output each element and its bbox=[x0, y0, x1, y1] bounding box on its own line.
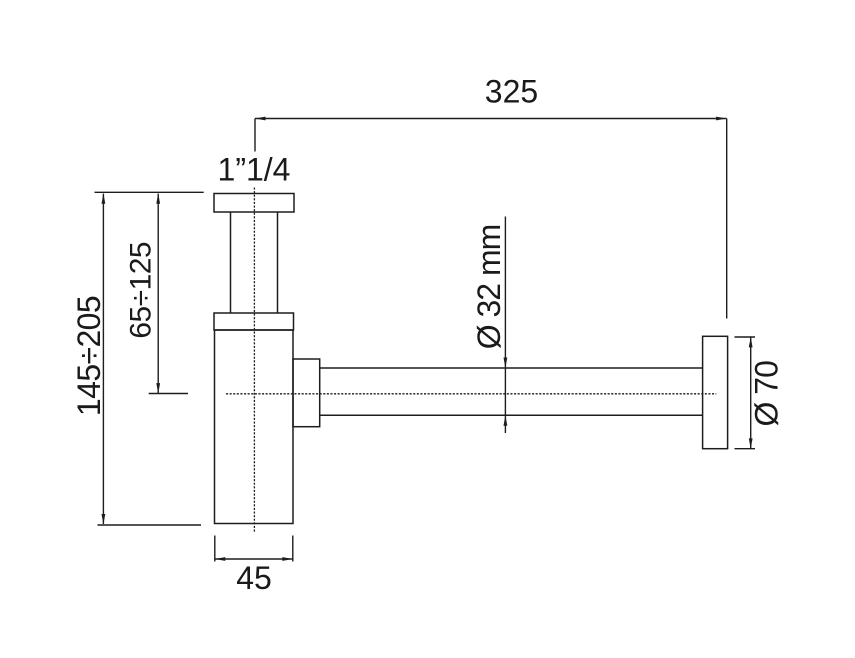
dim 325 line bbox=[255, 118, 727, 120]
dim 145-205 arrowhead bottom bbox=[102, 514, 106, 525]
dia32 arrowhead upper bbox=[504, 358, 508, 369]
dim 45 line bbox=[215, 558, 293, 560]
svg-text:325: 325 bbox=[485, 74, 538, 110]
dim 325 arrowhead left bbox=[255, 117, 266, 121]
svg-text:65÷125: 65÷125 bbox=[124, 242, 157, 339]
horizontal outlet pipe bottom edge bbox=[320, 414, 703, 416]
dia32 arrowhead lower bbox=[504, 415, 508, 426]
horizontal outlet pipe top edge bbox=[320, 367, 703, 369]
dim 325 ext right bbox=[726, 119, 728, 319]
dia70 ext top bbox=[735, 336, 756, 338]
top flange (tailpiece nut) bbox=[214, 194, 294, 213]
dim 45 arrowhead right bbox=[282, 557, 293, 561]
trap body bbox=[215, 330, 294, 524]
dim 65-125 line bbox=[157, 194, 159, 394]
dim 145-205 line bbox=[102, 194, 104, 524]
dim 325 arrowhead right bbox=[716, 117, 727, 121]
dim 65-125 arrowhead top bbox=[156, 193, 160, 204]
svg-text:Ø 70: Ø 70 bbox=[749, 361, 785, 427]
svg-text:1”1/4: 1”1/4 bbox=[218, 152, 291, 188]
svg-text:45: 45 bbox=[236, 560, 272, 596]
dim 45 ext right bbox=[292, 536, 294, 562]
dia70 dim line bbox=[750, 337, 752, 449]
tick 65-125 bottom bbox=[149, 393, 188, 395]
horizontal centerline bbox=[226, 393, 716, 395]
dia70 arrowhead bottom bbox=[749, 438, 753, 449]
dim 45 ext left bbox=[214, 536, 216, 562]
svg-text:Ø 32 mm: Ø 32 mm bbox=[471, 225, 507, 350]
vertical centerline bbox=[253, 188, 255, 534]
outlet connector nut bbox=[293, 359, 320, 427]
dia32 leader line bbox=[504, 217, 506, 434]
tailpiece pipe left edge bbox=[230, 212, 232, 313]
dia70 ext bottom bbox=[735, 448, 756, 450]
svg-text:145÷205: 145÷205 bbox=[71, 296, 107, 416]
wall flange bbox=[703, 336, 728, 448]
dim 65-125 arrowhead bottom bbox=[156, 383, 160, 394]
ext line flange top bbox=[95, 191, 204, 193]
dia70 arrowhead top bbox=[749, 337, 753, 348]
ext line body bottom bbox=[98, 524, 202, 526]
dim 325 ext left bbox=[254, 119, 256, 152]
tailpiece pipe right edge bbox=[277, 212, 279, 313]
body collar bbox=[214, 313, 294, 330]
dim 145-205 arrowhead top bbox=[102, 193, 106, 204]
dim 45 arrowhead left bbox=[215, 557, 226, 561]
